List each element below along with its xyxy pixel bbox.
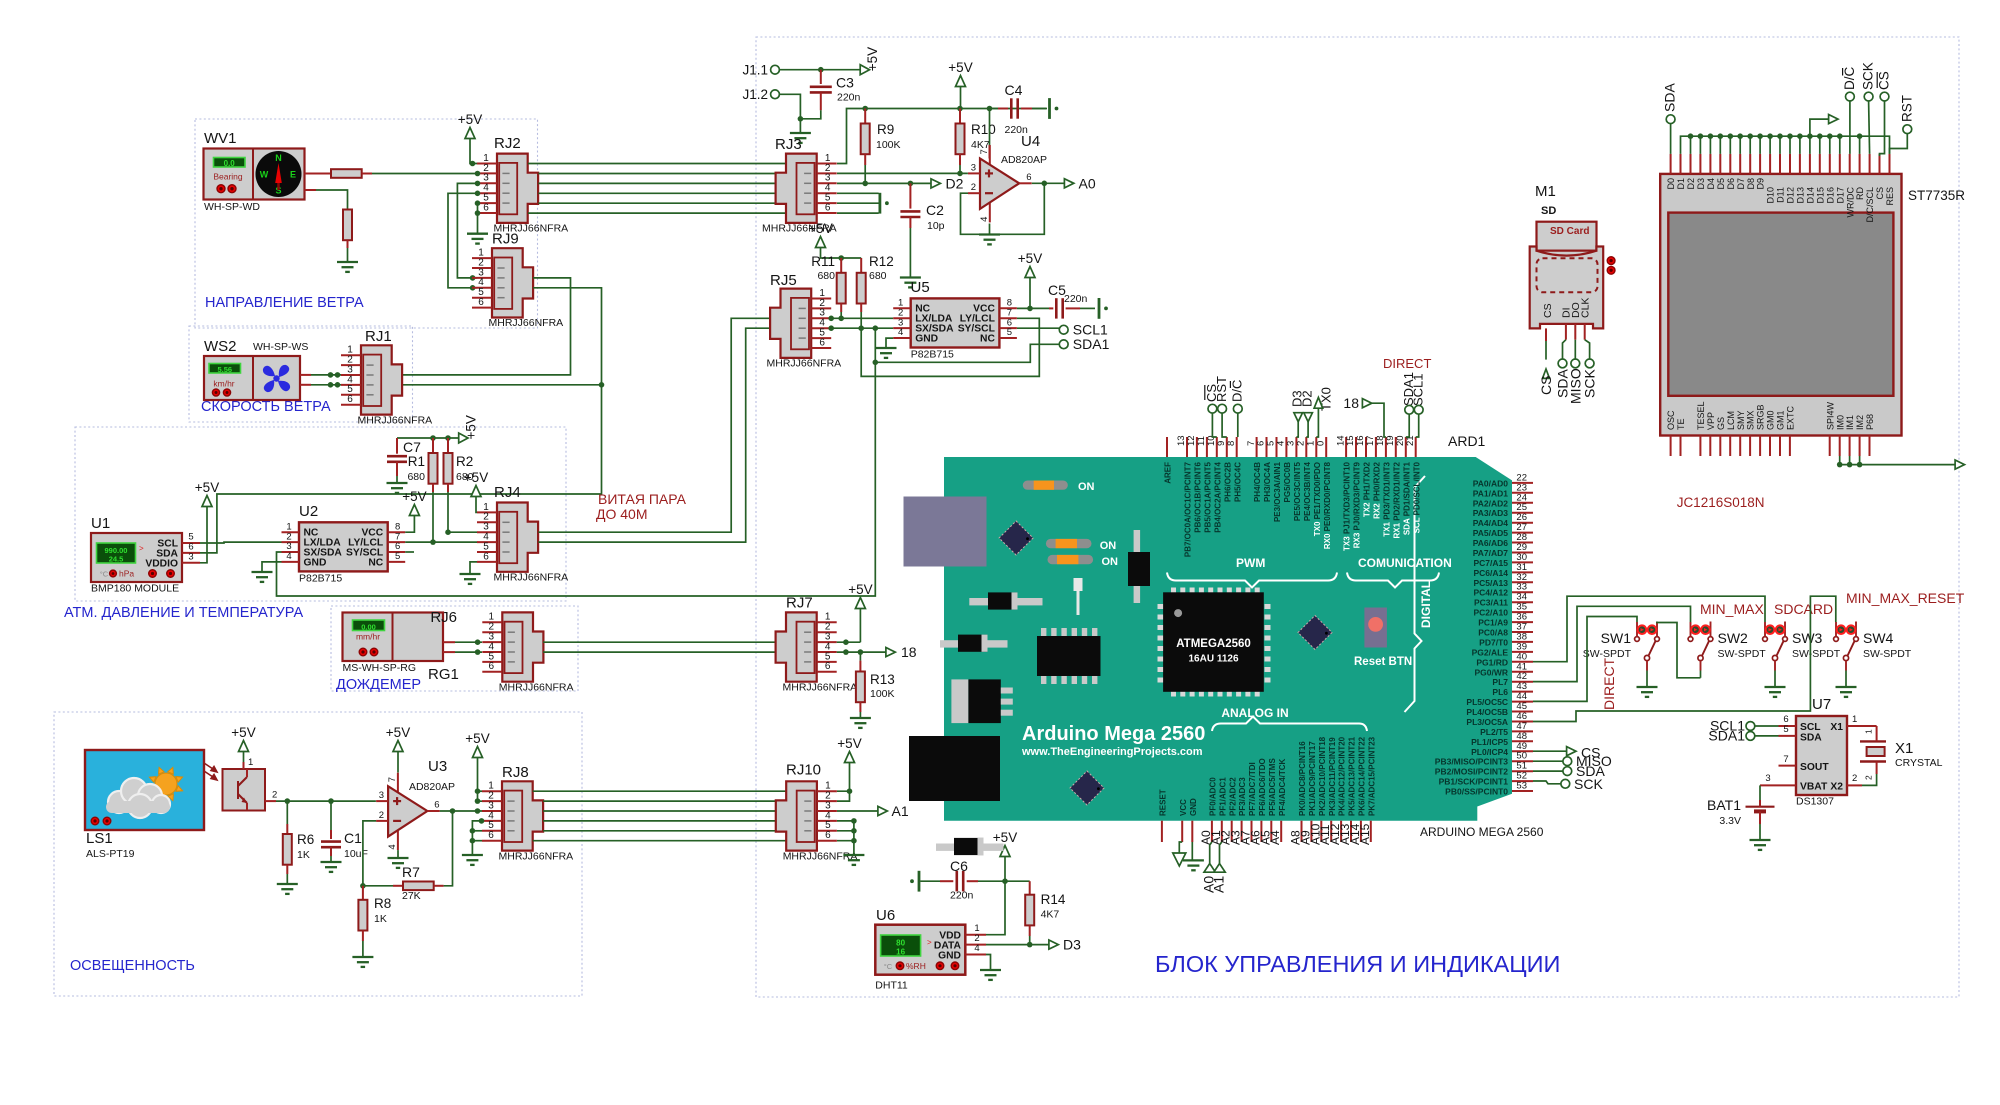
svg-text:PL6: PL6 bbox=[1492, 687, 1508, 697]
svg-text:SW1: SW1 bbox=[1601, 630, 1632, 646]
svg-text:PF0/ADC0: PF0/ADC0 bbox=[1209, 777, 1218, 816]
U6 GND to ground bbox=[986, 955, 991, 971]
wire RJ3 pin2 to opamp +input bbox=[837, 172, 968, 174]
svg-text:SCK: SCK bbox=[1582, 369, 1598, 398]
svg-text:R9: R9 bbox=[877, 122, 894, 137]
svg-text:6: 6 bbox=[819, 337, 825, 348]
svg-text:CRYSTAL: CRYSTAL bbox=[1895, 757, 1943, 769]
svg-text:PB2/MOSI/PCINT2: PB2/MOSI/PCINT2 bbox=[1435, 767, 1508, 777]
svg-text:SCL1: SCL1 bbox=[1411, 373, 1426, 406]
svg-text:NC: NC bbox=[368, 557, 383, 568]
svg-text:RJ5: RJ5 bbox=[770, 272, 797, 289]
ATMEGA2560 chip bbox=[1171, 588, 1176, 594]
svg-text:WH-SP-WS: WH-SP-WS bbox=[253, 341, 308, 353]
svg-text:P82B715: P82B715 bbox=[299, 573, 342, 585]
svg-text:PC4/A12: PC4/A12 bbox=[1474, 588, 1509, 598]
svg-text:SW2: SW2 bbox=[1718, 630, 1749, 646]
svg-text:1: 1 bbox=[248, 757, 253, 768]
bus riser D16 bbox=[1829, 136, 1831, 154]
svg-text:+5V: +5V bbox=[808, 221, 832, 236]
svg-text:GM1: GM1 bbox=[1776, 410, 1786, 430]
ground under BAT1 bbox=[1750, 839, 1771, 841]
svg-text:PA7/AD7: PA7/AD7 bbox=[1473, 548, 1509, 558]
pulldown resistor under WV1 bbox=[343, 210, 352, 241]
Arduino right pin row bbox=[1512, 482, 1533, 484]
ground under RJ8 bbox=[462, 854, 483, 856]
svg-text:CS: CS bbox=[1542, 303, 1554, 318]
ON LED 2 bbox=[1046, 539, 1092, 548]
wire pin46 to SW4 bbox=[1533, 596, 1836, 721]
svg-text:220n: 220n bbox=[950, 890, 974, 902]
wire WV1 to RJ2 pin2 bbox=[372, 173, 478, 175]
svg-text:VCC: VCC bbox=[1179, 799, 1188, 816]
SW2 common wire down bbox=[1700, 671, 1702, 678]
svg-text:Reset BTN: Reset BTN bbox=[1354, 656, 1412, 668]
svg-text:D6: D6 bbox=[1726, 178, 1736, 190]
+5V tag right of J1.1 bbox=[860, 65, 869, 75]
svg-text:53: 53 bbox=[1516, 781, 1527, 792]
svg-text:U5: U5 bbox=[911, 279, 930, 296]
svg-text:MHRJJ66NFRA: MHRJJ66NFRA bbox=[489, 317, 564, 329]
svg-text:AD820AP: AD820AP bbox=[409, 781, 455, 793]
diode on board below power jack bbox=[936, 844, 954, 851]
svg-text:PB5/OC1A/PCINT5: PB5/OC1A/PCINT5 bbox=[1204, 461, 1213, 532]
svg-text:D15: D15 bbox=[1815, 187, 1825, 204]
svg-text:PL5/OC5C: PL5/OC5C bbox=[1466, 697, 1508, 707]
svg-text:SDA1: SDA1 bbox=[1073, 336, 1110, 352]
svg-text:SW-SPDT: SW-SPDT bbox=[1792, 648, 1841, 660]
svg-text:RJ6: RJ6 bbox=[430, 609, 457, 626]
svg-text:7: 7 bbox=[979, 149, 990, 154]
svg-text:БЛОК УПРАВЛЕНИЯ И ИНДИКАЦИИ: БЛОК УПРАВЛЕНИЯ И ИНДИКАЦИИ bbox=[1155, 951, 1560, 977]
svg-text:VBAT: VBAT bbox=[1800, 782, 1828, 793]
svg-text:PH4/OC4B: PH4/OC4B bbox=[1253, 462, 1262, 502]
svg-text:7: 7 bbox=[1783, 754, 1788, 765]
svg-text:D0: D0 bbox=[1666, 178, 1676, 190]
svg-text:220n: 220n bbox=[1005, 124, 1029, 136]
light arrows LS1 to phototransistor bbox=[204, 763, 217, 780]
svg-text:R13: R13 bbox=[870, 672, 895, 687]
svg-text:TX3 PJ1/TXD3/PCINT10: TX3 PJ1/TXD3/PCINT10 bbox=[1343, 461, 1352, 550]
svg-text:+5V: +5V bbox=[993, 830, 1017, 845]
svg-text:10uF: 10uF bbox=[344, 848, 368, 860]
diamond pad 2 bbox=[1298, 616, 1332, 650]
svg-text:°C: °C bbox=[884, 962, 893, 971]
svg-text:A1: A1 bbox=[1211, 876, 1227, 893]
wire RJ5 pin4 row to U5 SX/SDA bbox=[831, 327, 893, 329]
wire J1.2 down to ground bbox=[779, 94, 800, 133]
svg-text:TX1 PD3/TXD1/INT3: TX1 PD3/TXD1/INT3 bbox=[1383, 461, 1392, 536]
svg-text:7: 7 bbox=[387, 777, 398, 782]
ground under R8 bbox=[352, 956, 373, 958]
resistor R13 bbox=[859, 652, 861, 661]
svg-text:PE4/OC3B/INT4: PE4/OC3B/INT4 bbox=[1303, 461, 1312, 521]
svg-text:SCL: SCL bbox=[1800, 722, 1821, 733]
SW4 common to ground bbox=[1845, 671, 1847, 688]
svg-text:1: 1 bbox=[1852, 714, 1857, 725]
svg-text:GND: GND bbox=[938, 950, 961, 961]
svg-text:TX2 PH1/TXD2: TX2 PH1/TXD2 bbox=[1363, 461, 1372, 517]
svg-text:6: 6 bbox=[825, 661, 831, 672]
svg-text:3: 3 bbox=[379, 790, 384, 801]
svg-text:C2: C2 bbox=[926, 202, 944, 218]
svg-text:680: 680 bbox=[817, 270, 835, 282]
svg-text:PK7/ADC15/PCINT23: PK7/ADC15/PCINT23 bbox=[1367, 736, 1376, 816]
svg-text:D3: D3 bbox=[1063, 937, 1081, 953]
LCD data bus wire bbox=[1681, 136, 1890, 154]
svg-text:WV1: WV1 bbox=[204, 130, 237, 147]
wire U1 SDA big loop to RJ1/RJ9 net bbox=[200, 385, 602, 553]
svg-text:RD: RD bbox=[1855, 187, 1865, 200]
svg-text:MHRJJ66NFRA: MHRJJ66NFRA bbox=[499, 850, 574, 862]
svg-text:BAT1: BAT1 bbox=[1707, 797, 1741, 813]
svg-text:6: 6 bbox=[488, 830, 494, 841]
battery BAT1 3.3V bbox=[1759, 785, 1761, 800]
block box control and indication bbox=[756, 37, 1959, 997]
svg-text:U6: U6 bbox=[876, 907, 895, 924]
svg-text:SMX: SMX bbox=[1746, 410, 1756, 430]
bus riser RD bbox=[1859, 136, 1861, 154]
svg-text:PD7/T0: PD7/T0 bbox=[1479, 637, 1508, 647]
ground at RJ4 pin6 bbox=[470, 562, 477, 574]
svg-text:SW3: SW3 bbox=[1792, 630, 1823, 646]
svg-text:220n: 220n bbox=[1064, 293, 1088, 305]
LCD IM0-IM2 bus to arrow bbox=[1840, 456, 1955, 465]
+5V rail over R9 R10 bbox=[860, 108, 1047, 110]
svg-text:PC3/A11: PC3/A11 bbox=[1474, 598, 1508, 608]
resistor R11 680 bbox=[840, 258, 842, 273]
bus riser D10 bbox=[1769, 136, 1771, 154]
svg-text:DIRECT: DIRECT bbox=[1601, 657, 1617, 710]
wire U2 SX/SDA long loop to RJ5 row bbox=[277, 362, 876, 596]
U4 output to A0 and feedback bbox=[1032, 182, 1065, 184]
svg-text:PK4/ADC12/PCINT20: PK4/ADC12/PCINT20 bbox=[1338, 736, 1347, 816]
svg-text:16AU 1126: 16AU 1126 bbox=[1188, 654, 1238, 665]
svg-text:SDCARD: SDCARD bbox=[1774, 601, 1833, 617]
svg-text:PB1/SCK/PCINT1: PB1/SCK/PCINT1 bbox=[1439, 777, 1509, 787]
long wires RJ8 to RJ10 bbox=[533, 790, 787, 792]
net tag A1 bbox=[837, 810, 878, 812]
svg-text:SPI4W: SPI4W bbox=[1825, 401, 1835, 430]
svg-text:D7: D7 bbox=[1736, 178, 1746, 190]
svg-text:2: 2 bbox=[272, 790, 277, 801]
svg-text:RES: RES bbox=[1885, 187, 1895, 206]
svg-text:W: W bbox=[260, 170, 269, 180]
phototransistor Q1 bbox=[223, 769, 266, 811]
svg-text:TESEL: TESEL bbox=[1696, 401, 1706, 430]
net tag D3 bbox=[1049, 940, 1058, 949]
bus riser D17 bbox=[1839, 136, 1841, 154]
svg-text:M1: M1 bbox=[1535, 183, 1556, 200]
block box wind speed bbox=[189, 326, 413, 422]
svg-text:D11: D11 bbox=[1776, 187, 1786, 203]
svg-text:C3: C3 bbox=[836, 75, 854, 91]
svg-text:TX0 PE1/TXD0/PDO: TX0 PE1/TXD0/PDO bbox=[1313, 462, 1322, 536]
svg-text:2: 2 bbox=[971, 182, 976, 193]
svg-text:GS: GS bbox=[1716, 417, 1726, 430]
svg-text:SD Card: SD Card bbox=[1550, 226, 1589, 237]
wire pin40 to SW3 bbox=[1533, 596, 1765, 662]
svg-text:+5V: +5V bbox=[458, 112, 482, 127]
svg-text:R14: R14 bbox=[1041, 892, 1066, 907]
wires RJ9 outputs to RJ1 bbox=[402, 278, 570, 375]
svg-text:OSC: OSC bbox=[1666, 410, 1676, 430]
ground under R13 bbox=[850, 717, 871, 719]
bus riser D9 bbox=[1759, 136, 1761, 154]
svg-text:16: 16 bbox=[896, 947, 905, 956]
svg-text:4: 4 bbox=[898, 327, 903, 338]
ground jumper RJ2 pins 5-6 bbox=[477, 203, 479, 234]
svg-text:DS1307: DS1307 bbox=[1796, 796, 1834, 808]
switch SW3 SW-SPDT bbox=[1763, 637, 1768, 642]
ground under RJ2 bbox=[467, 233, 488, 235]
svg-text:CS: CS bbox=[1875, 187, 1885, 200]
svg-text:PH6/OC2B: PH6/OC2B bbox=[1223, 462, 1232, 502]
block box pressure-temperature bbox=[75, 427, 566, 601]
svg-text:LCM: LCM bbox=[1726, 411, 1736, 430]
diode D on board near USB bbox=[969, 598, 988, 605]
U4 feedback loop bbox=[961, 183, 1045, 234]
svg-text:PG2/ALE: PG2/ALE bbox=[1472, 647, 1509, 657]
svg-text:ON: ON bbox=[1102, 556, 1119, 568]
svg-text:WR/DC: WR/DC bbox=[1845, 187, 1855, 218]
svg-text:COMUNICATION: COMUNICATION bbox=[1358, 556, 1452, 570]
svg-text:RJ9: RJ9 bbox=[492, 231, 519, 248]
tap ground left of C6 bbox=[918, 871, 921, 892]
svg-text:680: 680 bbox=[407, 471, 425, 483]
fan icon WS2 bbox=[263, 365, 290, 392]
svg-text:N: N bbox=[275, 153, 282, 163]
crystal X1 bbox=[1860, 740, 1886, 742]
svg-text:PC5/A13: PC5/A13 bbox=[1474, 578, 1509, 588]
svg-text:4: 4 bbox=[979, 217, 990, 222]
light sensor LS1 ALS-PT19 bbox=[85, 750, 204, 830]
terminal CS-bar above pin 10 bbox=[1208, 404, 1217, 413]
ground under RJ10 bbox=[843, 854, 864, 856]
bus riser D4 bbox=[1709, 136, 1711, 154]
svg-text:U2: U2 bbox=[299, 503, 318, 520]
svg-text:>: > bbox=[139, 544, 144, 553]
block box wind direction bbox=[195, 119, 538, 328]
bus riser D13 bbox=[1799, 136, 1801, 154]
svg-text:RJ8: RJ8 bbox=[502, 764, 529, 781]
svg-text:RJ7: RJ7 bbox=[786, 595, 813, 612]
svg-text:RX0 PE0/RXD0/PCINT8: RX0 PE0/RXD0/PCINT8 bbox=[1323, 461, 1332, 549]
svg-text:PK2/ADC10/PCINT18: PK2/ADC10/PCINT18 bbox=[1318, 736, 1327, 816]
svg-text:°C: °C bbox=[100, 570, 109, 579]
svg-text:5.56: 5.56 bbox=[217, 365, 232, 374]
wire RJ3 pin1 to +5V rail bbox=[837, 109, 860, 164]
terminal SDA at LCD bbox=[1666, 115, 1675, 124]
SD card pin CLK to SCK bbox=[1584, 324, 1586, 340]
svg-text:3: 3 bbox=[1765, 773, 1770, 784]
bus riser D2 bbox=[1690, 136, 1692, 154]
svg-text:100K: 100K bbox=[870, 688, 895, 700]
svg-text:SW4: SW4 bbox=[1863, 630, 1894, 646]
svg-text:R1: R1 bbox=[408, 454, 425, 469]
terminal SCL1 bbox=[1059, 325, 1068, 334]
svg-text:+5V: +5V bbox=[464, 470, 488, 485]
svg-text:PC7/A15: PC7/A15 bbox=[1474, 558, 1509, 568]
svg-text:5: 5 bbox=[1007, 327, 1012, 338]
svg-text:PB0/SS/PCINT0: PB0/SS/PCINT0 bbox=[1445, 787, 1508, 797]
bus riser D14 bbox=[1809, 136, 1811, 154]
svg-text:LS1: LS1 bbox=[86, 830, 113, 847]
svg-text:D2: D2 bbox=[1300, 390, 1315, 407]
svg-text:0.00: 0.00 bbox=[361, 622, 376, 631]
svg-text:PA5/AD5: PA5/AD5 bbox=[1473, 528, 1509, 538]
svg-text:ДОЖДЕМЕР: ДОЖДЕМЕР bbox=[336, 677, 421, 693]
svg-text:IM2: IM2 bbox=[1855, 415, 1865, 430]
net tag A1 bottom bbox=[1220, 842, 1222, 864]
svg-text:+5V: +5V bbox=[837, 736, 861, 751]
svg-text:MIN_MAX: MIN_MAX bbox=[1700, 601, 1764, 617]
svg-text:PG0/WR: PG0/WR bbox=[1474, 667, 1508, 677]
svg-text:1: 1 bbox=[1864, 729, 1874, 734]
svg-text:MHRJJ66NFRA: MHRJJ66NFRA bbox=[494, 572, 569, 584]
svg-text:R11: R11 bbox=[811, 254, 835, 269]
U4 power pin7 wire bbox=[989, 109, 991, 146]
svg-text:2: 2 bbox=[379, 810, 384, 821]
svg-text:BMP180 MODULE: BMP180 MODULE bbox=[91, 583, 179, 595]
svg-text:PA1/AD1: PA1/AD1 bbox=[1473, 488, 1509, 498]
svg-text:SCL PD0/SCL/INT0: SCL PD0/SCL/INT0 bbox=[1412, 461, 1421, 533]
svg-text:CS: CS bbox=[1538, 376, 1554, 395]
Reset button bbox=[1364, 608, 1387, 648]
svg-text:RJ3: RJ3 bbox=[775, 136, 802, 153]
ground under J1.2/C3 bbox=[790, 132, 811, 134]
svg-text:R2: R2 bbox=[456, 454, 473, 469]
svg-text:4: 4 bbox=[387, 844, 398, 849]
wire U2 LY/LCL to RJ4 pin4 bbox=[405, 541, 477, 543]
svg-text:ARD1: ARD1 bbox=[1448, 433, 1486, 449]
bus riser D6 bbox=[1729, 136, 1731, 154]
U4 pin4 ground bbox=[989, 224, 991, 235]
svg-text:U1: U1 bbox=[91, 515, 110, 532]
svg-text:ALS-PT19: ALS-PT19 bbox=[86, 848, 135, 860]
block box light level bbox=[54, 712, 582, 996]
svg-text:80: 80 bbox=[896, 938, 905, 947]
svg-text:RESET: RESET bbox=[1159, 789, 1168, 816]
LCD display ST7735R bbox=[1660, 174, 1901, 436]
svg-text:6: 6 bbox=[825, 202, 831, 213]
svg-text:+5V: +5V bbox=[465, 731, 489, 746]
svg-text:6: 6 bbox=[483, 202, 489, 213]
svg-text:ВИТАЯ ПАРА: ВИТАЯ ПАРА bbox=[598, 491, 687, 507]
svg-text:R6: R6 bbox=[297, 832, 314, 847]
svg-text:SOUT: SOUT bbox=[1800, 762, 1829, 773]
U5 SY/SCL to SCL1 bbox=[1017, 328, 1059, 330]
wires RG1 to RJ6 bbox=[443, 641, 455, 643]
block box rain gauge bbox=[331, 606, 578, 691]
svg-text:SD: SD bbox=[1541, 205, 1556, 217]
svg-text:D/C: D/C bbox=[1230, 380, 1245, 402]
svg-text:C4: C4 bbox=[1005, 82, 1023, 98]
svg-text:PC0/A8: PC0/A8 bbox=[1478, 628, 1508, 638]
wire RJ7 pin4 to tag 18 bbox=[837, 651, 886, 653]
svg-text:PF1/ADC1: PF1/ADC1 bbox=[1218, 777, 1227, 816]
terminal SCK at LCD bbox=[1864, 92, 1873, 101]
svg-text:JC1216S018N: JC1216S018N bbox=[1677, 495, 1765, 510]
svg-text:RX3 PJ0/RXD3/PCINT9: RX3 PJ0/RXD3/PCINT9 bbox=[1353, 461, 1362, 548]
svg-text:5: 5 bbox=[395, 551, 400, 562]
svg-text:+5V: +5V bbox=[402, 489, 426, 504]
ground under C7 bbox=[387, 482, 408, 484]
svg-text:1K: 1K bbox=[374, 913, 387, 925]
white jumper on board bbox=[1074, 578, 1083, 591]
power jack on board bbox=[909, 736, 1000, 801]
SD card pin DI to SDA bbox=[1565, 324, 1567, 340]
svg-text:U7: U7 bbox=[1812, 696, 1831, 713]
svg-text:SDA1: SDA1 bbox=[1708, 728, 1745, 744]
svg-text:PL7: PL7 bbox=[1492, 677, 1508, 687]
svg-text:НАПРАВЛЕНИЕ ВЕТРА: НАПРАВЛЕНИЕ ВЕТРА bbox=[205, 295, 364, 311]
svg-text:GM0: GM0 bbox=[1766, 410, 1776, 430]
svg-text:PK3/ADC11/PCINT19: PK3/ADC11/PCINT19 bbox=[1328, 737, 1337, 816]
svg-text:100K: 100K bbox=[876, 139, 901, 151]
svg-text:mm/hr: mm/hr bbox=[356, 632, 380, 642]
svg-text:A1: A1 bbox=[892, 803, 909, 819]
switch SW2 SW-SPDT bbox=[1688, 637, 1693, 642]
resistor R2 bbox=[447, 438, 449, 453]
svg-text:D2: D2 bbox=[1686, 178, 1696, 190]
svg-text:X2: X2 bbox=[1830, 782, 1843, 793]
ON LED 3 bbox=[1048, 555, 1094, 564]
svg-text:PG5/OC0B: PG5/OC0B bbox=[1283, 462, 1292, 503]
ground under WV1 resistor bbox=[337, 261, 358, 263]
capacitor C2 10p bbox=[909, 183, 911, 208]
svg-text:GND: GND bbox=[915, 333, 938, 344]
svg-text:+5V: +5V bbox=[386, 725, 410, 740]
svg-text:PL1/ICP5: PL1/ICP5 bbox=[1471, 737, 1508, 747]
svg-text:NC: NC bbox=[980, 333, 995, 344]
svg-text:C7: C7 bbox=[403, 439, 421, 455]
svg-text:PE3/OC3A/AIN1: PE3/OC3A/AIN1 bbox=[1273, 461, 1282, 522]
svg-text:RX2 PH0/RXD2: RX2 PH0/RXD2 bbox=[1373, 461, 1382, 518]
svg-text:PB4/OC2A/PCINT4: PB4/OC2A/PCINT4 bbox=[1213, 461, 1222, 532]
svg-text:PK6/ADC14/PCINT22: PK6/ADC14/PCINT22 bbox=[1358, 736, 1367, 816]
svg-text:km/hr: km/hr bbox=[213, 379, 234, 389]
bus riser D8 bbox=[1749, 136, 1751, 154]
svg-text:AD820AP: AD820AP bbox=[1001, 154, 1047, 166]
svg-text:18: 18 bbox=[901, 644, 917, 660]
svg-text:+5V: +5V bbox=[1018, 251, 1042, 266]
svg-text:WH-SP-WD: WH-SP-WD bbox=[204, 201, 260, 213]
svg-text:R12: R12 bbox=[869, 254, 894, 269]
svg-text:MHRJJ66NFRA: MHRJJ66NFRA bbox=[783, 681, 858, 693]
wires RJ6 to RJ7 bbox=[543, 641, 776, 643]
svg-text:PF3/ADC3: PF3/ADC3 bbox=[1238, 777, 1247, 816]
long wires RJ2 to RJ3 bbox=[528, 163, 786, 165]
SD card pin DO to MISO bbox=[1574, 324, 1576, 340]
svg-text:CLK: CLK bbox=[1580, 298, 1592, 318]
bus riser D3 bbox=[1699, 136, 1701, 154]
svg-text:220n: 220n bbox=[837, 92, 861, 104]
svg-text:ST7735R: ST7735R bbox=[1908, 188, 1965, 203]
terminal SCL1 at U7 bbox=[1746, 722, 1755, 731]
svg-text:RX1 PD2/RXD1/INT2: RX1 PD2/RXD1/INT2 bbox=[1392, 461, 1401, 538]
svg-text:ATMEGA2560: ATMEGA2560 bbox=[1176, 638, 1251, 650]
svg-text:X1: X1 bbox=[1830, 722, 1843, 733]
svg-text:PA2/AD2: PA2/AD2 bbox=[1473, 498, 1509, 508]
svg-text:D10: D10 bbox=[1766, 187, 1776, 204]
svg-text:VDDIO: VDDIO bbox=[145, 558, 178, 569]
svg-text:D1: D1 bbox=[1676, 178, 1686, 190]
svg-text:0.0: 0.0 bbox=[224, 159, 236, 168]
svg-text:D4: D4 bbox=[1706, 178, 1716, 190]
svg-text:X1: X1 bbox=[1895, 740, 1913, 757]
svg-text:RST: RST bbox=[1899, 95, 1914, 122]
